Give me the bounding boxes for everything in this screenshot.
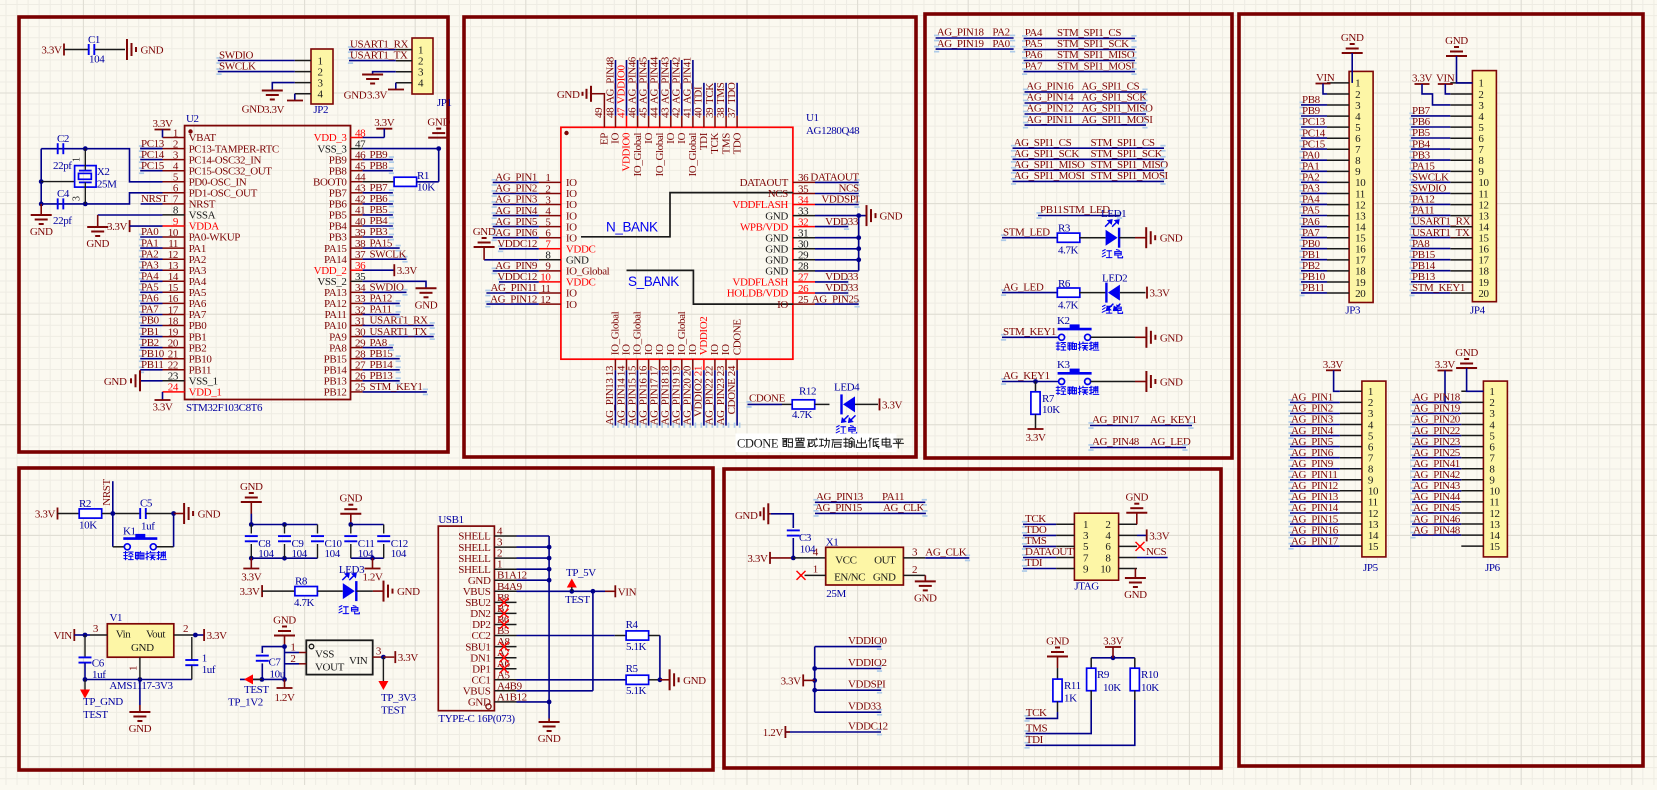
svg-text:PB9: PB9 — [370, 149, 389, 161]
svg-text:U1: U1 — [806, 112, 819, 124]
svg-text:GND: GND — [104, 376, 127, 388]
svg-text:C5: C5 — [140, 498, 153, 510]
svg-text:1K: 1K — [1064, 693, 1077, 705]
svg-text:AG_PIN17: AG_PIN17 — [1291, 535, 1339, 547]
svg-text:C3: C3 — [799, 532, 812, 544]
svg-text:JP4: JP4 — [1470, 305, 1486, 317]
svg-text:EN/NC: EN/NC — [834, 572, 865, 584]
svg-text:NCS: NCS — [1146, 546, 1166, 558]
svg-text:X1: X1 — [826, 537, 839, 549]
svg-text:VSS: VSS — [315, 649, 334, 661]
svg-text:CDONE: CDONE — [731, 319, 743, 356]
svg-text:3.3V: 3.3V — [41, 45, 62, 57]
svg-text:5.1K: 5.1K — [626, 685, 647, 697]
svg-text:4.7K: 4.7K — [1058, 245, 1079, 257]
svg-text:3.3V: 3.3V — [1025, 432, 1046, 444]
svg-text:USB1: USB1 — [438, 514, 463, 526]
svg-text:TCK: TCK — [1026, 707, 1047, 719]
svg-text:3.3V: 3.3V — [367, 90, 388, 102]
svg-text:JP6: JP6 — [1485, 562, 1501, 574]
svg-text:104: 104 — [325, 548, 341, 560]
svg-text:3.3V: 3.3V — [781, 675, 802, 687]
svg-text:R5: R5 — [626, 663, 639, 675]
svg-text:GND: GND — [468, 697, 491, 709]
svg-text:GND: GND — [198, 509, 221, 521]
svg-text:Vin: Vin — [116, 628, 132, 640]
svg-text:10K: 10K — [1042, 404, 1060, 416]
svg-text:1: 1 — [202, 653, 207, 665]
svg-text:PB13: PB13 — [370, 370, 394, 382]
svg-text:25M: 25M — [826, 588, 846, 600]
svg-text:R11: R11 — [1064, 680, 1081, 692]
svg-text:PB11: PB11 — [141, 359, 163, 371]
svg-text:PB11: PB11 — [1040, 204, 1062, 216]
svg-text:VIN: VIN — [1316, 72, 1335, 84]
svg-text:GND: GND — [880, 211, 903, 223]
svg-text:5.1K: 5.1K — [626, 641, 647, 653]
svg-text:JP5: JP5 — [1363, 562, 1379, 574]
svg-text:1uf: 1uf — [202, 664, 216, 676]
svg-text:CDONE: CDONE — [737, 437, 779, 451]
svg-text:GND: GND — [1445, 35, 1468, 47]
svg-text:AG_SPI1_MOSI: AG_SPI1_MOSI — [1082, 114, 1154, 126]
svg-text:C1: C1 — [88, 34, 100, 46]
svg-text:S_BANK: S_BANK — [628, 274, 679, 289]
svg-text:3.3V: 3.3V — [398, 652, 419, 664]
svg-text:3.3V: 3.3V — [1435, 359, 1456, 371]
svg-text:GND: GND — [86, 238, 109, 250]
svg-text:Vout: Vout — [146, 628, 165, 640]
svg-text:VIN: VIN — [349, 655, 368, 667]
svg-text:JP1: JP1 — [437, 97, 452, 109]
svg-text:GND: GND — [397, 586, 420, 598]
svg-text:GND: GND — [129, 723, 152, 735]
svg-text:10: 10 — [1100, 563, 1111, 575]
svg-text:USART1_TX: USART1_TX — [370, 326, 428, 338]
svg-text:10K: 10K — [417, 182, 435, 194]
svg-text:VOUT: VOUT — [315, 662, 345, 674]
svg-text:3: 3 — [912, 547, 918, 559]
svg-text:PA0: PA0 — [992, 38, 1010, 50]
svg-text:PC15: PC15 — [141, 160, 165, 172]
svg-text:PB3: PB3 — [370, 226, 389, 238]
svg-text:VCC: VCC — [835, 555, 856, 567]
svg-text:3.3V: 3.3V — [35, 509, 56, 521]
svg-text:GND: GND — [240, 481, 263, 493]
svg-text:GND: GND — [30, 226, 53, 238]
svg-text:AG1280Q48: AG1280Q48 — [806, 125, 860, 137]
svg-text:3.3V: 3.3V — [1412, 73, 1433, 85]
svg-text:3.3V: 3.3V — [152, 118, 173, 130]
svg-text:PB6: PB6 — [370, 193, 389, 205]
svg-text:GND: GND — [557, 89, 580, 101]
svg-text:STM_KEY1: STM_KEY1 — [1003, 326, 1056, 338]
svg-text:R10: R10 — [1141, 669, 1159, 681]
svg-text:C6: C6 — [92, 658, 105, 670]
svg-text:104: 104 — [89, 54, 105, 66]
svg-text:LED3: LED3 — [339, 564, 365, 576]
svg-text:GND: GND — [473, 226, 496, 238]
svg-text:SWCLK: SWCLK — [370, 248, 407, 260]
svg-text:TEST: TEST — [565, 594, 590, 606]
svg-text:VDD33: VDD33 — [825, 216, 859, 228]
svg-text:TEST: TEST — [381, 705, 406, 717]
svg-text:104: 104 — [292, 548, 308, 560]
svg-text:CDONE: CDONE — [749, 393, 786, 405]
svg-text:R12: R12 — [799, 386, 816, 398]
svg-text:R9: R9 — [1097, 669, 1110, 681]
svg-text:3.3V: 3.3V — [882, 399, 903, 411]
svg-text:3.3V: 3.3V — [241, 572, 262, 584]
svg-text:GND: GND — [1160, 377, 1183, 389]
svg-text:3: 3 — [72, 196, 83, 201]
svg-text:R6: R6 — [1058, 278, 1071, 290]
svg-text:1.2V: 1.2V — [763, 727, 784, 739]
svg-text:104: 104 — [391, 548, 407, 560]
svg-text:3.3V: 3.3V — [1150, 288, 1171, 300]
svg-text:AG_PIN25: AG_PIN25 — [812, 293, 860, 305]
svg-text:GND: GND — [538, 733, 561, 745]
svg-text:3.3V: 3.3V — [152, 402, 173, 414]
svg-text:AG_PIN19: AG_PIN19 — [937, 38, 985, 50]
svg-text:GND: GND — [735, 510, 758, 522]
svg-text:2: 2 — [290, 653, 295, 665]
svg-text:PA8: PA8 — [370, 337, 388, 349]
svg-text:3.3V: 3.3V — [1323, 359, 1344, 371]
svg-text:1: 1 — [128, 666, 140, 671]
svg-text:GND: GND — [1455, 347, 1478, 359]
svg-text:GND: GND — [914, 592, 937, 604]
svg-text:GND: GND — [1125, 492, 1148, 504]
svg-text:TP_GND: TP_GND — [83, 696, 123, 708]
svg-text:15: 15 — [1489, 541, 1500, 553]
svg-text:STM_LED: STM_LED — [1003, 226, 1050, 238]
svg-text:R1: R1 — [417, 170, 429, 182]
svg-text:1uf: 1uf — [141, 521, 155, 533]
svg-text:GND: GND — [873, 572, 896, 584]
svg-text:GND: GND — [415, 299, 438, 311]
svg-text:VDDIO0: VDDIO0 — [848, 635, 887, 647]
svg-text:VDDC12: VDDC12 — [848, 721, 888, 733]
svg-text:GND: GND — [1046, 636, 1069, 648]
svg-text:4.7K: 4.7K — [294, 597, 315, 609]
svg-text:3.3V: 3.3V — [264, 104, 285, 116]
svg-text:CDONE: CDONE — [726, 378, 738, 415]
svg-text:3.3V: 3.3V — [374, 117, 395, 129]
svg-text:PB12: PB12 — [324, 387, 347, 399]
svg-text:AG_SPI1_MOSI: AG_SPI1_MOSI — [1014, 170, 1086, 182]
svg-text:4: 4 — [418, 78, 424, 90]
svg-text:20: 20 — [1478, 288, 1489, 300]
svg-text:GND: GND — [141, 45, 164, 57]
svg-text:104: 104 — [258, 548, 274, 560]
svg-text:3.3V: 3.3V — [1149, 530, 1170, 542]
svg-text:K3: K3 — [1057, 359, 1071, 371]
svg-text:4.7K: 4.7K — [1058, 300, 1079, 312]
svg-text:GND: GND — [339, 493, 362, 505]
svg-text:PB8: PB8 — [370, 160, 389, 172]
svg-text:AG_LED: AG_LED — [1150, 436, 1191, 448]
svg-text:3: 3 — [93, 623, 99, 635]
svg-text:9: 9 — [1083, 563, 1089, 575]
svg-text:STM_SPI1_MOSI: STM_SPI1_MOSI — [1091, 170, 1169, 182]
svg-text:R2: R2 — [79, 498, 91, 510]
svg-text:12: 12 — [540, 294, 550, 306]
svg-text:STM_KEY1: STM_KEY1 — [1412, 282, 1465, 294]
svg-text:AG_PIN48: AG_PIN48 — [1092, 436, 1140, 448]
svg-text:STM_SPI1_MOSI: STM_SPI1_MOSI — [1057, 60, 1135, 72]
svg-text:AG_CLK: AG_CLK — [883, 502, 924, 514]
svg-text:VDD33: VDD33 — [848, 701, 882, 713]
svg-text:LED4: LED4 — [834, 382, 860, 394]
svg-text:NRST: NRST — [141, 193, 168, 205]
svg-text:24: 24 — [726, 365, 738, 376]
svg-text:K1: K1 — [123, 526, 136, 538]
svg-text:3: 3 — [376, 646, 382, 658]
svg-text:TEST: TEST — [244, 684, 269, 696]
svg-text:K2: K2 — [1057, 315, 1070, 327]
svg-text:LED2: LED2 — [1102, 273, 1127, 285]
svg-text:U2: U2 — [186, 113, 199, 125]
svg-text:VIN: VIN — [618, 586, 637, 598]
svg-text:GND: GND — [1160, 332, 1183, 344]
svg-text:10K: 10K — [1141, 682, 1159, 694]
svg-text:JTAG: JTAG — [1074, 581, 1099, 593]
svg-text:4: 4 — [813, 547, 819, 559]
svg-text:1.2V: 1.2V — [362, 572, 383, 584]
svg-text:3.3V: 3.3V — [1103, 636, 1124, 648]
svg-text:GND: GND — [242, 104, 265, 116]
svg-text:PB4: PB4 — [370, 215, 389, 227]
svg-text:AG_CLK: AG_CLK — [925, 547, 966, 559]
svg-text:10K: 10K — [1103, 682, 1121, 694]
svg-text:1: 1 — [72, 157, 83, 162]
svg-text:10K: 10K — [79, 520, 97, 532]
svg-text:TP_5V: TP_5V — [566, 567, 596, 579]
svg-text:AG_PIN48: AG_PIN48 — [1413, 524, 1461, 536]
svg-text:IO: IO — [777, 299, 788, 311]
svg-text:20: 20 — [1355, 288, 1366, 300]
svg-text:4: 4 — [318, 89, 324, 101]
svg-text:VDDC12: VDDC12 — [497, 238, 537, 250]
svg-text:15: 15 — [1368, 541, 1379, 553]
svg-text:PA11: PA11 — [370, 304, 392, 316]
svg-text:GND: GND — [1124, 589, 1147, 601]
svg-text:1.2V: 1.2V — [274, 692, 295, 704]
svg-text:37: 37 — [726, 107, 738, 118]
svg-text:SWCLK: SWCLK — [219, 61, 256, 73]
svg-text:GND: GND — [1160, 233, 1183, 245]
svg-text:TYPE-C 16P(073): TYPE-C 16P(073) — [438, 713, 515, 725]
svg-text:GND: GND — [131, 642, 154, 654]
svg-text:V1: V1 — [110, 612, 123, 624]
svg-text:PB11: PB11 — [1302, 282, 1324, 294]
svg-text:25M: 25M — [97, 179, 117, 191]
svg-text:R4: R4 — [626, 619, 639, 631]
svg-text:NRST: NRST — [101, 479, 113, 506]
svg-text:AG_PIN17: AG_PIN17 — [1092, 414, 1140, 426]
svg-text:LED1: LED1 — [1101, 208, 1126, 220]
svg-text:TDI: TDI — [1025, 557, 1043, 569]
svg-text:4.7K: 4.7K — [792, 409, 813, 421]
svg-text:104: 104 — [358, 548, 374, 560]
svg-text:C7: C7 — [269, 657, 282, 669]
svg-text:JP3: JP3 — [1345, 305, 1361, 317]
svg-text:1: 1 — [290, 642, 295, 654]
svg-text:22pf: 22pf — [53, 160, 72, 172]
svg-text:X2: X2 — [97, 166, 110, 178]
svg-text:GND: GND — [683, 675, 706, 687]
svg-text:AG_LED: AG_LED — [1003, 281, 1044, 293]
svg-text:AG_KEY1: AG_KEY1 — [1003, 370, 1050, 382]
svg-text:TP_1V2: TP_1V2 — [228, 697, 263, 709]
svg-text:AG_PIN11: AG_PIN11 — [1026, 114, 1073, 126]
svg-text:2: 2 — [183, 623, 188, 635]
svg-text:PA7: PA7 — [1025, 60, 1043, 72]
svg-text:C2: C2 — [57, 133, 69, 145]
svg-text:3.3V: 3.3V — [107, 221, 128, 233]
svg-text:TEST: TEST — [83, 709, 108, 721]
svg-text:3.3V: 3.3V — [747, 553, 768, 565]
svg-text:VDD_1: VDD_1 — [189, 387, 222, 399]
svg-text:N_BANK: N_BANK — [606, 220, 658, 235]
svg-text:TDO: TDO — [726, 82, 738, 104]
svg-text:1: 1 — [813, 564, 818, 576]
svg-text:TDO: TDO — [731, 133, 743, 155]
svg-text:GND: GND — [427, 117, 450, 129]
svg-text:VIN: VIN — [1436, 73, 1455, 85]
svg-text:SWDIO: SWDIO — [370, 282, 405, 294]
svg-text:3.3V: 3.3V — [207, 630, 228, 642]
svg-text:JP2: JP2 — [313, 104, 328, 116]
svg-text:AG_PIN12: AG_PIN12 — [490, 293, 537, 305]
svg-text:GND: GND — [344, 90, 367, 102]
svg-text:OUT: OUT — [874, 555, 896, 567]
svg-text:VDDSPI: VDDSPI — [821, 194, 859, 206]
svg-text:TMS: TMS — [1026, 722, 1048, 734]
svg-text:3.3V: 3.3V — [239, 586, 260, 598]
svg-text:24: 24 — [168, 382, 179, 394]
svg-text:PB7: PB7 — [370, 182, 389, 194]
svg-text:PA12: PA12 — [370, 293, 392, 305]
svg-text:2: 2 — [912, 564, 917, 576]
svg-text:PB5: PB5 — [370, 204, 389, 216]
svg-text:AMS1117-3V3: AMS1117-3V3 — [109, 680, 173, 692]
svg-text:R8: R8 — [295, 576, 308, 588]
svg-text:3.3V: 3.3V — [397, 265, 418, 277]
svg-text:C4: C4 — [57, 188, 70, 200]
svg-text:PB14: PB14 — [370, 359, 394, 371]
svg-text:IO: IO — [566, 299, 577, 311]
svg-text:22pf: 22pf — [53, 215, 72, 227]
svg-text:VDDSPI: VDDSPI — [848, 679, 886, 691]
svg-text:R3: R3 — [1058, 223, 1071, 235]
svg-text:25: 25 — [798, 294, 809, 306]
svg-text:AG_KEY1: AG_KEY1 — [1150, 414, 1197, 426]
svg-text:AG_PIN15: AG_PIN15 — [815, 502, 863, 514]
svg-text:GND: GND — [273, 615, 296, 627]
svg-text:TP_3V3: TP_3V3 — [381, 692, 417, 704]
svg-text:TDI: TDI — [1026, 734, 1044, 746]
svg-text:VDDIO2: VDDIO2 — [848, 657, 887, 669]
svg-text:STM32F103C8T6: STM32F103C8T6 — [186, 402, 263, 414]
svg-text:VIN: VIN — [53, 630, 72, 642]
svg-text:USART1_TX: USART1_TX — [350, 50, 408, 62]
